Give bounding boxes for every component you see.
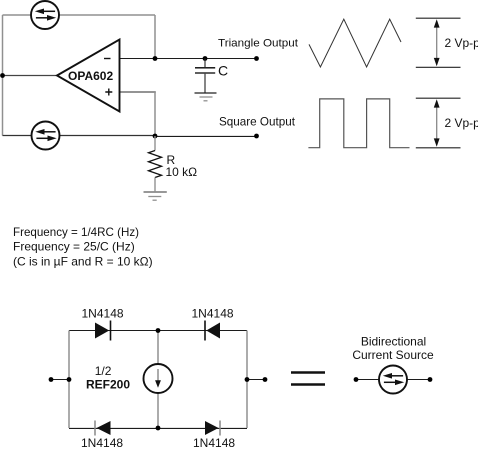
equivalence sign: [291, 373, 325, 385]
node: bridge top center junction: [156, 328, 161, 333]
capacitor C: [195, 59, 215, 93]
svg-text:2 Vp-p: 2 Vp-p: [445, 116, 478, 130]
svg-text:1N4148: 1N4148: [82, 306, 124, 320]
wire bridge right rail: [246, 331, 248, 429]
node: junction inverting input / C: [153, 56, 158, 61]
node: junction op-amp output to rail: [0, 73, 5, 78]
node: right terminal of equivalent source: [428, 377, 433, 382]
wire right terminal stub: [247, 379, 265, 381]
svg-text:1N4148: 1N4148: [193, 436, 235, 450]
svg-text:C: C: [218, 62, 228, 78]
diode D4 1N4148 (bottom right): [205, 421, 220, 436]
ground (below R): [144, 192, 167, 200]
diode D1 1N4148 (top left): [95, 321, 111, 341]
wire bridge bottom rail: [69, 427, 247, 429]
square waveform: [308, 99, 409, 148]
svg-text:OPA602: OPA602: [68, 69, 113, 83]
svg-text:1/2: 1/2: [95, 364, 112, 378]
svg-text:1N4148: 1N4148: [81, 436, 123, 450]
node: bridge bottom center junction: [156, 426, 161, 431]
diode D3 1N4148 (bottom left): [95, 421, 111, 436]
measure lines square 2Vp-p: [416, 98, 461, 148]
current source I4 (bidirectional equivalent): [379, 366, 407, 394]
current source I3 (1/2 REF200): [144, 364, 173, 393]
wire inverting input to triangle output: [120, 58, 257, 60]
svg-text:2 Vp-p: 2 Vp-p: [445, 36, 478, 50]
wire bridge left rail: [68, 331, 70, 429]
resistor R 10k: [149, 136, 162, 191]
svg-text:Frequency = 25/C (Hz): Frequency = 25/C (Hz): [13, 240, 135, 254]
wire bridge middle branch: [157, 331, 159, 429]
wire bidirectional current source: [356, 379, 430, 381]
current source I2 (bottom bidirectional): [32, 122, 60, 150]
measure lines triangle 2Vp-p: [416, 18, 461, 67]
triangle waveform: [309, 19, 401, 67]
wire top from rail through current source to C node: [3, 14, 156, 16]
diode D2 1N4148 (top right): [205, 321, 220, 341]
svg-text:Bidirectional: Bidirectional: [361, 335, 426, 349]
svg-text:REF200: REF200: [86, 378, 130, 392]
wire op-amp output to left rail: [3, 75, 58, 77]
svg-text:Current Source: Current Source: [352, 348, 434, 362]
wire bottom from rail through current source to R node: [3, 135, 156, 137]
svg-text:Square Output: Square Output: [219, 114, 296, 128]
current source I1 (top bidirectional): [31, 1, 59, 29]
node: square output terminal: [254, 134, 259, 139]
wire left feedback rail: [2, 15, 4, 136]
node: junction square/R: [153, 134, 158, 139]
svg-text:Frequency = 1/4RC (Hz): Frequency = 1/4RC (Hz): [13, 225, 139, 239]
node: bridge left junction: [67, 377, 72, 382]
ground (below C): [195, 93, 217, 101]
wire square output: [155, 135, 257, 137]
node: junction capacitor top: [203, 56, 208, 61]
node: right terminal: [263, 377, 268, 382]
svg-text:Triangle Output: Triangle Output: [218, 37, 298, 49]
node: left terminal: [49, 377, 54, 382]
wire left terminal stub: [51, 379, 69, 381]
svg-text:1N4148: 1N4148: [192, 306, 234, 320]
wire bridge top rail: [69, 330, 247, 332]
svg-text:(C is in µF and R = 10 kΩ): (C is in µF and R = 10 kΩ): [13, 254, 153, 268]
node: triangle output terminal: [254, 56, 259, 61]
node: bridge right junction: [245, 377, 250, 382]
wire noninverting input to square node: [120, 91, 156, 93]
node: left terminal of equivalent source: [354, 377, 359, 382]
op-amp U1 OPA602: [57, 40, 120, 112]
wire vertical into inverting input node: [154, 15, 156, 59]
svg-text:10 kΩ: 10 kΩ: [166, 165, 198, 179]
